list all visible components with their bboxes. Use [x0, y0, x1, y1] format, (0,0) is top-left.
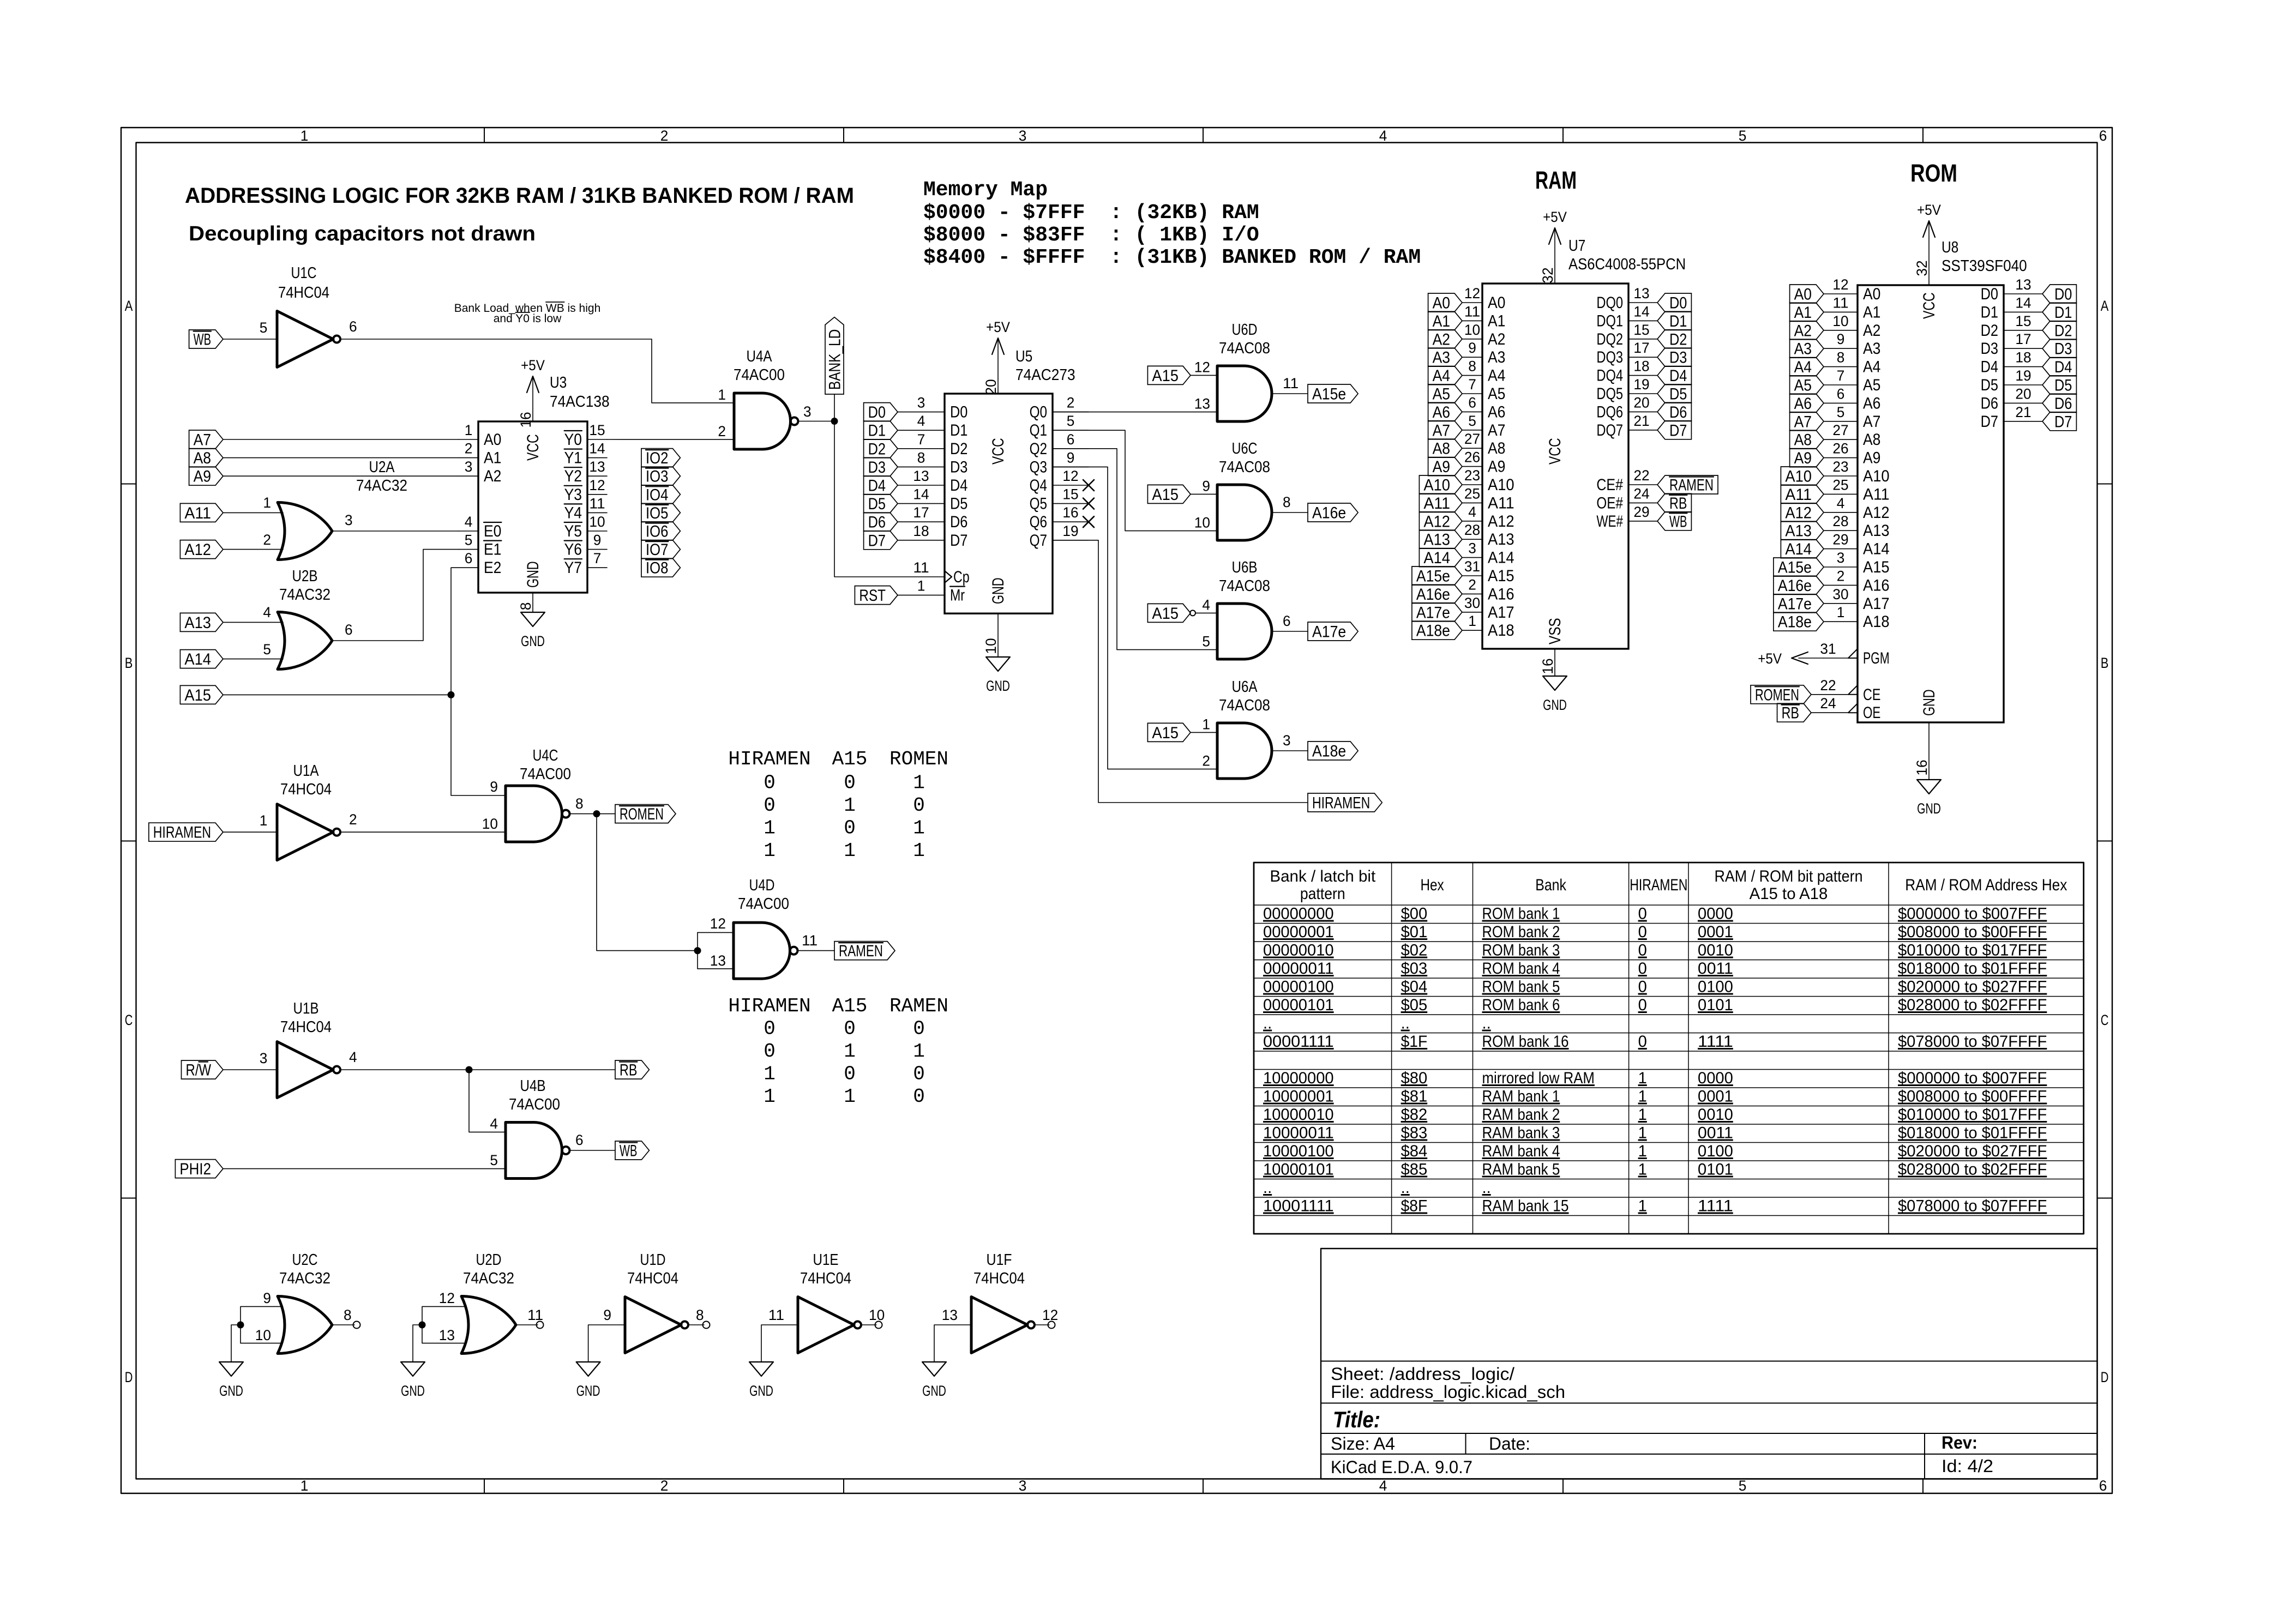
wire: [223, 475, 459, 477]
net label A5 (ROM): [1790, 376, 1824, 394]
net label A13 (RAM): [1419, 530, 1462, 548]
svg-text:$01: $01: [1401, 923, 1428, 941]
wire: [223, 439, 459, 440]
svg-text:11: 11: [802, 932, 818, 949]
svg-text:19: 19: [1062, 523, 1078, 539]
svg-text:A15: A15: [1152, 724, 1179, 742]
and-gate U6A 74AC08: [1202, 678, 1290, 779]
svg-text:A8: A8: [1488, 439, 1505, 457]
net label A15 (to U6D): [1147, 366, 1191, 384]
net label A2 (RAM): [1428, 330, 1462, 348]
svg-text:00000101: 00000101: [1263, 996, 1334, 1014]
net label A6 (ROM): [1790, 394, 1824, 412]
svg-text:Q2: Q2: [1030, 440, 1047, 458]
svg-text:4: 4: [465, 514, 473, 530]
svg-text:RAM bank 4: RAM bank 4: [1482, 1142, 1560, 1160]
svg-text:RB: RB: [1782, 704, 1799, 722]
no-connect X: [1083, 516, 1094, 527]
net label WB (input to U1C): [189, 330, 223, 348]
svg-text:26: 26: [1832, 441, 1848, 457]
svg-text:..: ..: [1401, 1179, 1410, 1197]
svg-text:AS6C4008-55PCN: AS6C4008-55PCN: [1568, 256, 1686, 273]
svg-text:A9: A9: [194, 468, 211, 486]
svg-text:7: 7: [593, 550, 602, 566]
svg-text:1: 1: [913, 817, 925, 840]
svg-text:HIRAMEN: HIRAMEN: [1630, 876, 1687, 894]
svg-text:Y2: Y2: [564, 467, 582, 485]
svg-text:A2: A2: [1488, 330, 1505, 348]
svg-text:5: 5: [465, 532, 473, 548]
svg-text:D2: D2: [868, 440, 886, 458]
svg-text:74AC08: 74AC08: [1219, 340, 1270, 357]
svg-text:14: 14: [2015, 294, 2031, 311]
svg-text:ROM bank 3: ROM bank 3: [1482, 942, 1560, 960]
svg-text:8: 8: [1283, 494, 1291, 510]
svg-text:$018000 to $01FFFF: $018000 to $01FFFF: [1898, 1124, 2047, 1142]
svg-text:0001: 0001: [1698, 1088, 1733, 1106]
svg-text:A16: A16: [1863, 576, 1890, 594]
svg-text:0: 0: [1638, 1033, 1647, 1051]
no-connect X: [1083, 498, 1094, 509]
svg-text:U4A: U4A: [747, 348, 773, 365]
svg-text:D1: D1: [2054, 304, 2072, 322]
net label A15 (to U6B): [1147, 604, 1191, 622]
svg-text:00000010: 00000010: [1263, 942, 1334, 960]
net label D6 (into U5): [864, 512, 898, 531]
wire U5 Q0 to U6D pin 13: [1053, 412, 1217, 413]
svg-text:A17e: A17e: [1312, 623, 1346, 641]
svg-text:D7: D7: [1981, 413, 1998, 431]
svg-text:5: 5: [1468, 413, 1476, 429]
net label IO3: [641, 467, 680, 485]
svg-text:1: 1: [1638, 1197, 1647, 1215]
svg-text:2: 2: [349, 811, 357, 828]
svg-text:A13: A13: [184, 614, 211, 632]
svg-text:D1: D1: [868, 422, 886, 440]
svg-text:5: 5: [1202, 634, 1210, 650]
svg-text:74AC08: 74AC08: [1219, 697, 1270, 714]
svg-text:22: 22: [1633, 467, 1649, 484]
svg-text:B: B: [125, 655, 133, 671]
net label A12 (ROM): [1781, 503, 1824, 522]
no-connect U2D output: [537, 1322, 544, 1329]
net label RB: [615, 1060, 649, 1079]
svg-text:C: C: [2101, 1012, 2109, 1028]
wire from U2B output to U3 E1: [333, 550, 459, 641]
svg-text:A4: A4: [1433, 367, 1450, 385]
svg-text:ROMEN: ROMEN: [620, 805, 664, 823]
svg-text:A3: A3: [1488, 348, 1505, 366]
svg-text:$83: $83: [1401, 1124, 1428, 1142]
svg-text:D2: D2: [1981, 322, 1998, 340]
net label A3 (RAM): [1428, 348, 1462, 366]
svg-text:2: 2: [1837, 568, 1845, 584]
svg-text:A2: A2: [484, 467, 501, 485]
svg-text:U1F: U1F: [987, 1251, 1012, 1269]
net label A16e: [1308, 503, 1358, 522]
svg-text:17: 17: [1633, 340, 1649, 356]
svg-text:1: 1: [764, 1063, 776, 1086]
svg-text:U6D: U6D: [1232, 321, 1258, 339]
net label A15 (to U6C): [1147, 485, 1191, 503]
svg-text:WB: WB: [1669, 512, 1687, 530]
net label D5 (into U5): [864, 495, 898, 513]
svg-text:11: 11: [1832, 294, 1848, 311]
net label RST: [855, 586, 898, 605]
ground for U1D: [576, 1362, 600, 1399]
memory U8 SST39SF040: [1820, 239, 2042, 722]
svg-text:1: 1: [1468, 613, 1476, 629]
svg-text:6: 6: [1283, 613, 1291, 629]
svg-text:A18e: A18e: [1778, 613, 1812, 631]
svg-text:20: 20: [1633, 394, 1649, 411]
svg-text:A11: A11: [1785, 486, 1812, 504]
net label IO5: [641, 503, 680, 522]
svg-text:DQ1: DQ1: [1596, 312, 1623, 330]
svg-text:0010: 0010: [1698, 1106, 1733, 1124]
svg-text:9: 9: [1067, 449, 1075, 466]
net label D7 (into U5): [864, 531, 898, 550]
inverter U1C 74HC04: [260, 264, 357, 367]
svg-text:ROM bank 1: ROM bank 1: [1482, 905, 1560, 923]
svg-text:10000100: 10000100: [1263, 1142, 1334, 1160]
svg-text:RAM bank 15: RAM bank 15: [1482, 1197, 1569, 1215]
net label HIRAMEN (output): [1308, 793, 1382, 812]
wire: [1191, 375, 1217, 376]
net label A7 (RAM): [1428, 421, 1462, 439]
svg-text:$010000 to $017FFF: $010000 to $017FFF: [1898, 942, 2047, 960]
svg-text:1: 1: [300, 128, 309, 144]
svg-text:ROMEN: ROMEN: [1755, 686, 1799, 704]
svg-text:74AC273: 74AC273: [1015, 366, 1075, 384]
svg-text:A17e: A17e: [1416, 604, 1450, 622]
svg-text:A0: A0: [1794, 286, 1812, 304]
svg-text:10000001: 10000001: [1263, 1088, 1334, 1106]
svg-text:+5V: +5V: [1543, 209, 1567, 225]
svg-text:IO7: IO7: [646, 541, 668, 559]
wire: [1824, 658, 1848, 659]
svg-text:and Y0 is low: and Y0 is low: [494, 312, 562, 325]
wire: [223, 659, 283, 660]
svg-text:A14: A14: [1863, 540, 1890, 558]
svg-text:D4: D4: [1669, 367, 1687, 385]
svg-text:7: 7: [1837, 367, 1845, 384]
svg-text:28: 28: [1832, 513, 1848, 529]
svg-text:0: 0: [764, 1018, 776, 1040]
net label A9: [189, 467, 223, 485]
and-gate U6D 74AC08: [1194, 321, 1299, 421]
svg-text:10: 10: [1194, 515, 1210, 531]
wire: [698, 932, 734, 933]
svg-text:13: 13: [439, 1327, 455, 1343]
wire U4A output to BANK_LD junction: [798, 421, 835, 422]
wire from U3 Y0 to U4A pin 2: [607, 439, 734, 440]
svg-text:1: 1: [300, 1478, 309, 1494]
net label A10 (ROM): [1781, 467, 1824, 485]
svg-text:RAMEN: RAMEN: [889, 995, 948, 1017]
net label A4 (RAM): [1428, 366, 1462, 385]
svg-text:D0: D0: [868, 403, 886, 421]
svg-text:6: 6: [1067, 431, 1075, 448]
svg-text:A6: A6: [1863, 394, 1880, 412]
svg-text:D7: D7: [868, 532, 886, 550]
svg-text:A16: A16: [1488, 585, 1514, 603]
svg-text:A15: A15: [1152, 486, 1179, 504]
svg-text:1: 1: [1638, 1106, 1647, 1124]
junction U2C: [237, 1322, 244, 1329]
svg-text:0: 0: [1638, 996, 1647, 1014]
svg-text:WB: WB: [194, 331, 211, 349]
svg-text:21: 21: [1633, 413, 1649, 429]
svg-text:Bank / latch bit: Bank / latch bit: [1270, 867, 1375, 885]
svg-text:16: 16: [1914, 759, 1930, 775]
svg-text:U1E: U1E: [813, 1251, 839, 1269]
svg-text:0: 0: [1638, 942, 1647, 960]
svg-text:GND: GND: [922, 1383, 946, 1399]
svg-text:IO4: IO4: [646, 486, 668, 504]
net label D3 (RAM): [1657, 348, 1691, 366]
svg-text:24: 24: [1633, 485, 1649, 502]
svg-text:A13: A13: [1863, 522, 1890, 540]
net label HIRAMEN (input): [149, 823, 223, 841]
memory map text: [923, 178, 1421, 269]
svg-text:HIRAMEN: HIRAMEN: [1312, 794, 1370, 812]
decoder U3 74AC138: [459, 374, 610, 593]
svg-text:0: 0: [844, 772, 856, 794]
svg-text:14: 14: [589, 441, 605, 457]
net label A17e: [1308, 622, 1358, 641]
svg-text:$1F: $1F: [1401, 1033, 1428, 1051]
svg-text:A9: A9: [1863, 449, 1880, 467]
svg-text:GND: GND: [219, 1383, 243, 1399]
wire: [223, 831, 277, 833]
svg-text:74HC04: 74HC04: [278, 284, 329, 302]
svg-text:74AC138: 74AC138: [550, 393, 610, 411]
svg-text:D3: D3: [1981, 340, 1998, 358]
inverter U1E 74HC04 (unused): [768, 1251, 885, 1353]
svg-text:A15e: A15e: [1778, 559, 1812, 577]
svg-text:A4: A4: [1488, 367, 1505, 385]
svg-text:A15e: A15e: [1312, 385, 1346, 403]
wire: [1191, 493, 1217, 495]
svg-text:74HC04: 74HC04: [280, 1018, 332, 1036]
svg-text:A: A: [125, 298, 133, 314]
net label D0 (into U5): [864, 403, 898, 421]
svg-text:Sheet: /address_logic/: Sheet: /address_logic/: [1331, 1364, 1514, 1384]
svg-text:13: 13: [942, 1307, 958, 1323]
net label A1 (ROM): [1790, 303, 1824, 321]
svg-text:A0: A0: [484, 431, 501, 449]
svg-text:U3: U3: [550, 374, 567, 391]
svg-text:A0: A0: [1488, 294, 1505, 312]
wire U6A output to A18e: [1271, 750, 1308, 751]
inverter U1B 74HC04: [260, 1000, 357, 1098]
svg-text:U1A: U1A: [293, 762, 320, 780]
svg-text:27: 27: [1832, 422, 1848, 438]
svg-text:Y5: Y5: [564, 522, 582, 540]
svg-text:U8: U8: [1942, 239, 1958, 256]
wire: [1191, 732, 1217, 733]
svg-text:17: 17: [2015, 331, 2031, 347]
svg-text:ROM bank 5: ROM bank 5: [1482, 978, 1560, 996]
svg-text:3: 3: [917, 395, 925, 411]
svg-text:0011: 0011: [1698, 960, 1733, 978]
svg-text:A15: A15: [1488, 567, 1514, 585]
svg-text:A11: A11: [1423, 495, 1450, 512]
svg-text:U5: U5: [1015, 348, 1032, 365]
net label A15e: [1308, 384, 1358, 403]
svg-text:13: 13: [1194, 396, 1210, 412]
svg-text:10000011: 10000011: [1263, 1124, 1334, 1142]
svg-text:GND: GND: [401, 1383, 425, 1399]
svg-text:U6B: U6B: [1232, 559, 1258, 576]
svg-text:20: 20: [983, 379, 999, 395]
svg-text:GND: GND: [1920, 689, 1938, 716]
svg-text:0: 0: [913, 1086, 925, 1108]
svg-text:74AC00: 74AC00: [520, 765, 571, 783]
wire from U1B output to RB label: [340, 1069, 615, 1070]
svg-text:00000001: 00000001: [1263, 923, 1334, 941]
net label A7: [189, 430, 223, 449]
wire A15 to junction: [223, 694, 451, 695]
svg-text:7: 7: [1468, 376, 1476, 393]
svg-text:4: 4: [263, 604, 271, 620]
svg-text:GND: GND: [576, 1383, 600, 1399]
svg-text:E1: E1: [484, 541, 501, 559]
svg-text:Y4: Y4: [564, 504, 582, 522]
and-gate U6C 74AC08: [1194, 440, 1291, 540]
or-gate U2A 74AC32: [263, 459, 407, 560]
svg-text:4: 4: [490, 1115, 498, 1132]
svg-text:15: 15: [1633, 322, 1649, 338]
svg-text:00000100: 00000100: [1263, 978, 1334, 996]
nand-gate U4D 74AC00: [710, 877, 818, 979]
svg-text:74HC04: 74HC04: [800, 1270, 851, 1287]
svg-text:4: 4: [1379, 1478, 1387, 1494]
net label A7 (ROM): [1790, 412, 1824, 431]
svg-text:13: 13: [710, 952, 726, 969]
svg-text:16: 16: [1062, 504, 1078, 521]
svg-text:A9: A9: [1488, 458, 1505, 476]
net label ROMEN (ROM CE): [1751, 685, 1811, 704]
net label D0 (RAM): [1657, 293, 1691, 312]
svg-text:D7: D7: [1669, 421, 1687, 439]
svg-text:$8F: $8F: [1401, 1197, 1428, 1215]
svg-text:1: 1: [764, 1086, 776, 1108]
net label A6 (RAM): [1428, 402, 1462, 421]
svg-text:A12: A12: [1488, 512, 1514, 530]
svg-text:$000000 to $007FFF: $000000 to $007FFF: [1898, 1069, 2047, 1087]
svg-text:D1: D1: [1981, 303, 1998, 321]
net label A16e (RAM): [1412, 584, 1462, 603]
svg-text:Q4: Q4: [1030, 477, 1047, 495]
bank table: [1254, 863, 2084, 1234]
net label D1 (ROM): [2042, 303, 2076, 321]
svg-text:$018000 to $01FFFF: $018000 to $01FFFF: [1898, 960, 2047, 978]
svg-text:DQ2: DQ2: [1596, 330, 1623, 348]
svg-text:8: 8: [1837, 349, 1845, 366]
svg-text:8: 8: [696, 1307, 704, 1323]
svg-text:IO2: IO2: [646, 449, 668, 467]
net label A14 (ROM): [1781, 540, 1824, 558]
svg-text:A15 to A18: A15 to A18: [1750, 885, 1828, 903]
wire U4D input bracket: [697, 932, 698, 968]
svg-text:2: 2: [660, 1478, 669, 1494]
svg-text:D1: D1: [1669, 312, 1687, 330]
svg-text:11: 11: [768, 1307, 784, 1323]
and-gate U6B 74AC08: [1202, 559, 1290, 659]
svg-text:12: 12: [1194, 359, 1210, 375]
svg-text:U6C: U6C: [1232, 440, 1258, 457]
svg-text:11: 11: [913, 559, 929, 576]
svg-text:A18: A18: [1863, 613, 1890, 631]
ground for RAM: [1540, 649, 1567, 713]
svg-text:1: 1: [1202, 716, 1210, 732]
svg-text:A13: A13: [1785, 522, 1812, 540]
svg-text:HIRAMEN: HIRAMEN: [153, 824, 211, 842]
svg-text:10000000: 10000000: [1263, 1069, 1334, 1087]
svg-text:..: ..: [1482, 1179, 1491, 1197]
svg-text:RAM bank 2: RAM bank 2: [1482, 1106, 1560, 1124]
svg-text:RST: RST: [859, 587, 886, 605]
svg-text:A9: A9: [1433, 458, 1450, 476]
no-connect marker: [1190, 610, 1195, 616]
wire: [698, 968, 734, 969]
net label IO4: [641, 485, 680, 504]
net label IO2: [641, 449, 680, 467]
svg-text:2: 2: [1067, 395, 1075, 411]
net label WB (output): [615, 1141, 649, 1160]
svg-text:0000: 0000: [1698, 905, 1733, 923]
svg-text:VCC: VCC: [1920, 292, 1938, 319]
no-connect U1D output: [703, 1322, 710, 1329]
junction RB: [466, 1066, 473, 1074]
svg-text:3: 3: [260, 1050, 268, 1066]
svg-text:0: 0: [913, 1063, 925, 1086]
svg-text:D2: D2: [950, 440, 967, 458]
net label A9 (ROM): [1790, 449, 1824, 467]
svg-text:RB: RB: [1669, 495, 1687, 512]
svg-text:Hex: Hex: [1421, 876, 1444, 894]
svg-text:OE: OE: [1863, 704, 1880, 722]
svg-text:1: 1: [844, 1086, 856, 1108]
svg-text:D0: D0: [1669, 294, 1687, 312]
net label A14: [180, 650, 223, 668]
svg-text:3: 3: [465, 459, 473, 475]
svg-text:27: 27: [1464, 431, 1480, 447]
svg-text:5: 5: [1067, 413, 1075, 429]
wire U2C output stub: [333, 1324, 354, 1325]
svg-text:5: 5: [263, 641, 271, 658]
svg-text:29: 29: [1633, 504, 1649, 520]
ground for U1F: [922, 1362, 946, 1399]
svg-text:ROM bank 2: ROM bank 2: [1482, 923, 1560, 941]
svg-text:$020000 to $027FFF: $020000 to $027FFF: [1898, 1142, 2047, 1160]
+5V power for U5: [983, 319, 1010, 395]
svg-text:D6: D6: [1669, 403, 1687, 421]
wire U2C inputs tied: [241, 1306, 281, 1343]
svg-text:GND: GND: [1917, 800, 1941, 817]
svg-text:$028000 to $02FFFF: $028000 to $02FFFF: [1898, 996, 2047, 1014]
net label A4 (ROM): [1790, 358, 1824, 376]
net label A16e (ROM): [1774, 576, 1824, 594]
svg-text:GND: GND: [524, 561, 542, 588]
wire U5 Q1 to U6C pin 10: [1053, 430, 1217, 530]
svg-text:3: 3: [1468, 540, 1476, 557]
svg-text:A15: A15: [832, 748, 868, 770]
net label IO8: [641, 558, 680, 577]
svg-text:10: 10: [1832, 313, 1848, 329]
